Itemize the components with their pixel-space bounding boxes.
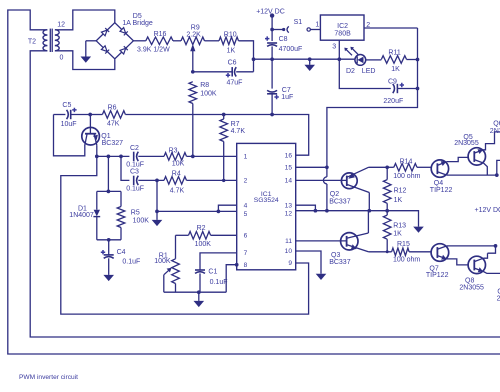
wire	[164, 291, 226, 293]
node	[252, 57, 256, 61]
wire	[107, 156, 109, 191]
wire pin12 bus	[296, 211, 419, 227]
wire	[96, 145, 98, 156]
svg-text:7: 7	[244, 250, 248, 257]
wire	[30, 51, 500, 337]
wire	[125, 114, 272, 116]
svg-text:1K: 1K	[394, 197, 403, 204]
node	[325, 209, 329, 213]
wire	[55, 10, 115, 30]
node	[107, 190, 111, 194]
ground	[81, 41, 92, 63]
wire	[447, 259, 468, 265]
node	[119, 155, 123, 159]
wiper arrow	[190, 44, 195, 51]
svg-text:3.9K 1/2W: 3.9K 1/2W	[137, 47, 170, 54]
svg-text:C6: C6	[228, 59, 237, 66]
svg-text:Q2: Q2	[330, 191, 339, 198]
svg-text:R12: R12	[394, 188, 407, 195]
wire	[447, 157, 468, 161]
svg-text:C4: C4	[117, 249, 126, 256]
wire	[55, 51, 115, 70]
svg-text:0: 0	[60, 54, 64, 61]
svg-text:R9: R9	[191, 24, 200, 31]
svg-text:+12V DC: +12V DC	[475, 207, 500, 214]
diode bridge D5	[96, 13, 153, 59]
node +12V DC input	[256, 8, 285, 17]
transistor Q4	[430, 160, 453, 194]
wire pin15	[296, 166, 327, 168]
svg-text:R5: R5	[131, 210, 140, 217]
capacitor C4	[101, 240, 141, 275]
svg-text:R6: R6	[108, 104, 117, 111]
node	[88, 113, 92, 117]
node	[155, 179, 159, 183]
wire	[97, 239, 121, 241]
svg-text:BC337: BC337	[329, 198, 351, 205]
wire	[488, 246, 496, 253]
svg-text:15: 15	[285, 164, 293, 171]
svg-text:4.7K: 4.7K	[170, 187, 185, 194]
node	[270, 57, 274, 61]
resistor R14	[387, 158, 431, 180]
node	[235, 263, 239, 267]
capacitor C2	[126, 145, 164, 169]
node	[217, 210, 221, 214]
capacitor C6	[193, 59, 254, 86]
wire	[447, 174, 497, 176]
wire	[173, 40, 181, 42]
transistor Q2	[329, 167, 369, 205]
svg-text:R16: R16	[154, 31, 167, 38]
wire	[239, 41, 254, 72]
svg-text:S1: S1	[294, 19, 303, 26]
wire	[121, 156, 129, 180]
wire	[339, 59, 391, 88]
svg-text:2N3055: 2N3055	[490, 128, 500, 135]
svg-text:R2: R2	[197, 225, 206, 232]
node	[308, 57, 312, 61]
resistor R11	[381, 49, 406, 73]
resistor R13	[383, 211, 406, 252]
svg-text:C5: C5	[62, 102, 71, 109]
svg-text:3: 3	[332, 44, 336, 51]
node	[416, 87, 420, 91]
regulator IC2	[315, 15, 370, 51]
transformer T2	[28, 22, 65, 62]
node	[197, 290, 201, 294]
wire	[187, 155, 237, 157]
svg-text:100 ohm: 100 ohm	[393, 173, 420, 180]
svg-text:R15: R15	[397, 241, 410, 248]
wire pin8	[226, 265, 237, 293]
transistor Q8	[459, 256, 485, 291]
node	[494, 244, 498, 248]
capacitor C8	[265, 36, 302, 59]
svg-text:14: 14	[285, 178, 293, 185]
svg-text:Q8: Q8	[465, 277, 474, 284]
wire	[90, 114, 102, 116]
resistor R3	[164, 148, 187, 168]
wire pin10	[296, 251, 321, 274]
resistor R7	[220, 115, 245, 181]
resistor R10	[219, 31, 239, 54]
node	[155, 210, 159, 214]
wire	[326, 184, 328, 211]
wire	[156, 180, 158, 211]
svg-text:8: 8	[244, 262, 248, 269]
wire	[497, 160, 500, 175]
svg-text:C1: C1	[208, 268, 217, 275]
ground	[152, 211, 163, 226]
svg-text:Q3: Q3	[331, 252, 340, 259]
svg-text:1: 1	[244, 154, 248, 161]
svg-text:0.1uF: 0.1uF	[210, 279, 228, 286]
svg-text:PWM inverter circuit: PWM inverter circuit	[19, 374, 78, 381]
transistor Q3	[329, 233, 368, 267]
wire	[271, 59, 273, 88]
transistor Q7	[426, 244, 449, 279]
svg-text:1: 1	[315, 22, 319, 29]
wire	[483, 272, 500, 274]
ground	[413, 227, 424, 233]
svg-text:2N3055: 2N3055	[454, 140, 479, 147]
svg-text:4700uF: 4700uF	[279, 46, 303, 53]
svg-text:C7: C7	[282, 87, 291, 94]
wire	[366, 59, 382, 61]
resistor R8	[189, 82, 217, 157]
wire	[254, 58, 356, 60]
node	[107, 238, 111, 242]
svg-text:10: 10	[285, 248, 293, 255]
svg-text:C2: C2	[130, 145, 139, 152]
svg-text:0.1uF: 0.1uF	[122, 259, 140, 266]
svg-text:16: 16	[285, 152, 293, 159]
ground	[316, 274, 327, 280]
wire	[97, 155, 130, 157]
wire	[367, 211, 369, 233]
transistor Q6 partial	[490, 120, 500, 135]
wire	[368, 193, 370, 211]
svg-text:100K: 100K	[195, 241, 212, 248]
node	[270, 28, 274, 32]
svg-text:100K: 100K	[200, 90, 217, 97]
svg-text:2.2K: 2.2K	[186, 31, 201, 38]
wire	[271, 16, 273, 41]
wire	[368, 251, 391, 253]
wire pins45	[157, 205, 237, 211]
transistor Q1	[82, 115, 123, 148]
wire	[192, 50, 194, 72]
wire pin2	[364, 27, 418, 29]
svg-text:R13: R13	[393, 222, 406, 229]
wire	[483, 253, 487, 258]
svg-text:13: 13	[285, 202, 293, 209]
svg-text:4.7K: 4.7K	[231, 128, 246, 135]
svg-text:47uF: 47uF	[227, 80, 243, 87]
wire pin16 net	[272, 115, 309, 156]
wire	[133, 40, 145, 42]
svg-text:780B: 780B	[334, 30, 351, 37]
wire	[327, 28, 418, 177]
resistor R16	[137, 31, 173, 53]
svg-text:6: 6	[244, 233, 248, 240]
wire pin13	[296, 205, 316, 211]
resistor R2	[176, 225, 237, 248]
svg-text:T2: T2	[28, 39, 36, 46]
LED D2	[344, 47, 375, 75]
svg-text:220uF: 220uF	[383, 98, 403, 105]
node	[337, 57, 341, 61]
node	[495, 173, 499, 177]
svg-text:R4: R4	[172, 171, 181, 178]
svg-text:R10: R10	[224, 31, 237, 38]
wire	[407, 59, 418, 61]
capacitor C9	[383, 79, 417, 105]
svg-text:C3: C3	[130, 169, 139, 176]
node	[385, 209, 389, 213]
wire	[86, 40, 96, 42]
svg-text:R8: R8	[200, 82, 209, 89]
ground	[304, 59, 315, 71]
wire pin14	[296, 179, 347, 181]
svg-text:47K: 47K	[107, 120, 120, 127]
wire	[187, 179, 237, 181]
wire	[484, 132, 500, 150]
svg-text:5: 5	[244, 211, 248, 218]
svg-text:R11: R11	[388, 49, 400, 56]
svg-text:SG3524: SG3524	[254, 197, 279, 204]
node	[386, 250, 389, 253]
svg-text:12: 12	[285, 211, 293, 218]
node	[191, 70, 195, 74]
svg-text:R14: R14	[400, 158, 413, 165]
wire pin11	[296, 240, 347, 242]
resistor R1	[154, 235, 179, 292]
svg-text:4: 4	[244, 202, 248, 209]
resistor R6	[102, 104, 125, 127]
node	[222, 179, 225, 182]
node	[325, 165, 329, 169]
svg-text:100K: 100K	[154, 258, 171, 265]
svg-text:100 ohm: 100 ohm	[393, 256, 420, 263]
wire	[97, 190, 121, 192]
svg-text:12: 12	[57, 22, 65, 29]
wire	[61, 156, 309, 314]
resistor R5	[117, 191, 149, 239]
diode D1	[69, 191, 100, 239]
svg-text:9: 9	[288, 260, 292, 267]
svg-text:C8: C8	[279, 36, 288, 43]
IC U1 SG3524	[237, 143, 296, 269]
svg-text:10uF: 10uF	[61, 121, 77, 128]
node	[314, 209, 318, 213]
svg-text:R3: R3	[169, 148, 178, 155]
node	[270, 113, 274, 117]
ground	[103, 275, 114, 281]
node	[191, 155, 195, 159]
capacitor C5	[54, 102, 91, 128]
wire	[447, 245, 496, 247]
resistor R15	[392, 241, 432, 263]
svg-text:TIP122: TIP122	[430, 187, 453, 194]
svg-text:0.1uF: 0.1uF	[126, 162, 144, 169]
wire	[54, 115, 85, 156]
svg-text:1N4007: 1N4007	[69, 212, 94, 219]
svg-text:BC327: BC327	[102, 140, 124, 147]
resistor R12	[383, 167, 406, 210]
svg-text:IC2: IC2	[337, 23, 348, 30]
svg-text:Q1: Q1	[101, 133, 110, 140]
node	[416, 58, 420, 62]
wire pin3	[338, 40, 340, 59]
svg-text:2N3055: 2N3055	[459, 284, 484, 291]
svg-text:11: 11	[285, 238, 292, 245]
svg-text:10K: 10K	[172, 160, 185, 167]
capacitor C7	[267, 87, 293, 115]
svg-text:C9: C9	[388, 79, 397, 86]
resistor R9	[181, 24, 205, 44]
svg-text:100K: 100K	[133, 218, 150, 225]
node	[385, 165, 389, 169]
svg-text:0.1uF: 0.1uF	[126, 186, 144, 193]
svg-text:Q6: Q6	[493, 120, 500, 127]
wire	[205, 40, 220, 42]
svg-text:1K: 1K	[393, 230, 402, 237]
svg-text:1K: 1K	[227, 47, 236, 54]
capacitor C3	[126, 169, 164, 193]
svg-text:TIP122: TIP122	[426, 272, 449, 279]
svg-text:D2: D2	[346, 68, 355, 75]
wire	[369, 166, 388, 168]
resistor R4	[164, 171, 187, 195]
transistor Q5	[454, 134, 485, 165]
node	[95, 155, 99, 159]
svg-text:2: 2	[244, 178, 248, 185]
node	[367, 209, 371, 213]
node	[107, 155, 111, 159]
switch S1	[272, 19, 320, 33]
wire hop	[323, 177, 327, 184]
svg-text:1K: 1K	[391, 66, 400, 73]
ground	[194, 292, 205, 307]
transistor Q9 partial	[497, 288, 500, 302]
svg-text:2N3055: 2N3055	[497, 295, 500, 302]
svg-text:LED: LED	[362, 68, 376, 75]
capacitor C1	[195, 253, 237, 292]
svg-text:BC337: BC337	[329, 259, 351, 266]
node	[222, 113, 226, 117]
svg-text:1A Bridge: 1A Bridge	[122, 20, 152, 27]
svg-text:1uF: 1uF	[281, 94, 293, 101]
wire	[484, 163, 488, 175]
